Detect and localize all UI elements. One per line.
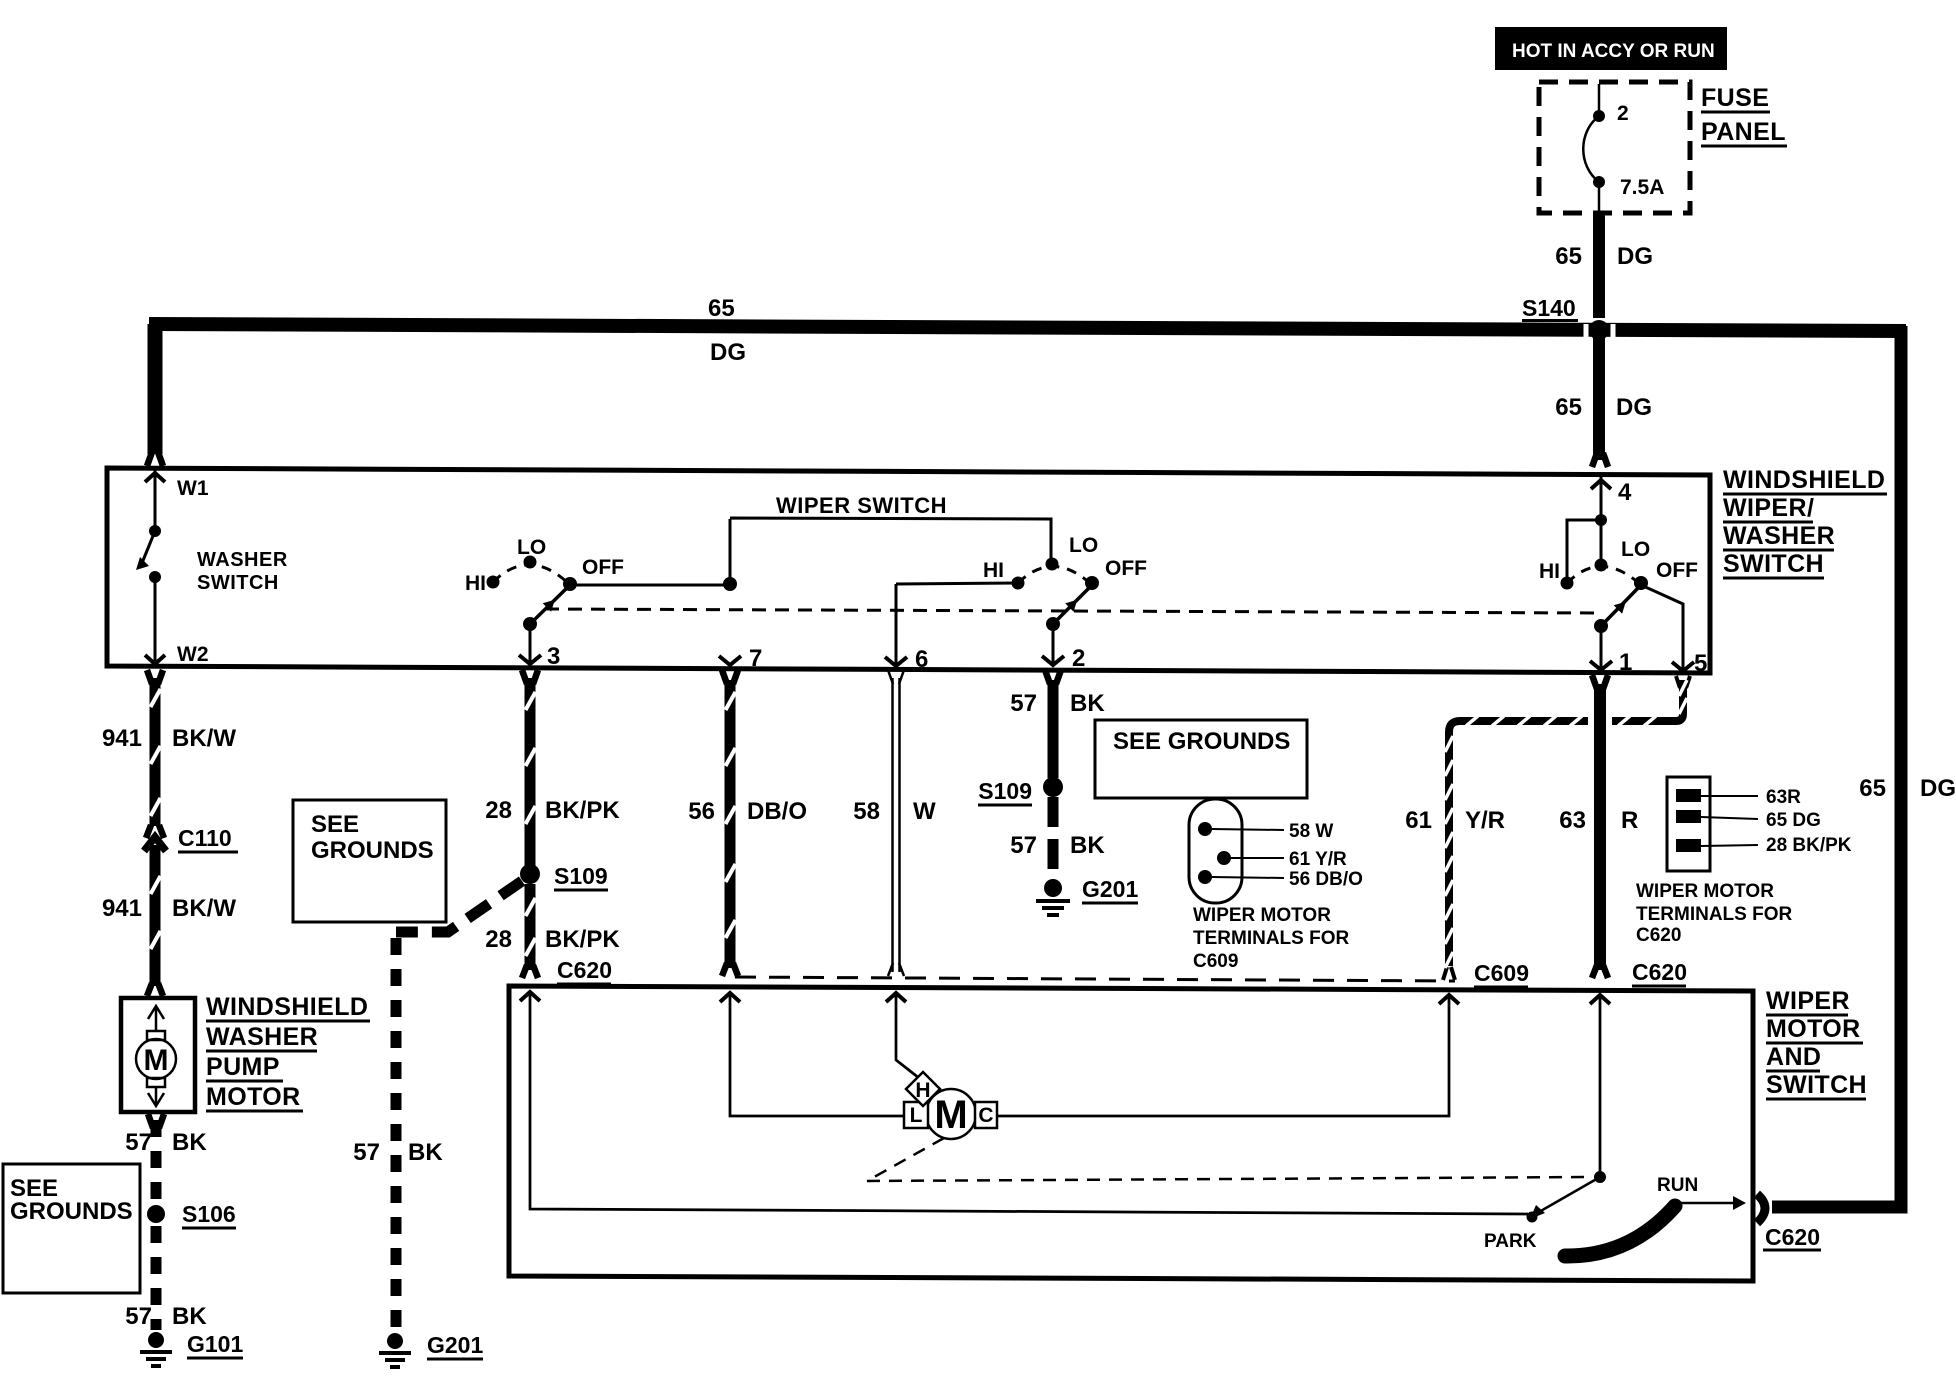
svg-text:C620: C620 — [1636, 925, 1681, 946]
svg-text:C609: C609 — [1193, 951, 1238, 972]
svg-text:63: 63 — [1559, 807, 1586, 834]
svg-text:OFF: OFF — [1105, 557, 1147, 580]
svg-text:BK: BK — [172, 1303, 207, 1330]
svg-text:MOTOR: MOTOR — [1766, 1015, 1861, 1043]
svg-text:WINDSHIELD: WINDSHIELD — [206, 993, 368, 1021]
svg-text:LO: LO — [1621, 538, 1650, 561]
svg-text:DB/O: DB/O — [747, 798, 807, 825]
svg-text:PANEL: PANEL — [1701, 118, 1786, 146]
svg-text:C620: C620 — [1765, 1224, 1820, 1250]
svg-text:5: 5 — [1694, 650, 1707, 677]
svg-text:57: 57 — [353, 1139, 380, 1166]
svg-text:57: 57 — [125, 1303, 152, 1330]
svg-text:WIPER MOTOR: WIPER MOTOR — [1636, 881, 1774, 902]
svg-text:RUN: RUN — [1657, 1175, 1698, 1196]
svg-text:S140: S140 — [1522, 295, 1576, 321]
svg-text:65: 65 — [1555, 394, 1582, 421]
svg-text:DG: DG — [1617, 243, 1653, 270]
svg-text:3: 3 — [547, 643, 560, 670]
svg-text:L: L — [910, 1104, 923, 1127]
svg-text:M: M — [144, 1044, 169, 1077]
svg-text:TERMINALS FOR: TERMINALS FOR — [1193, 928, 1349, 949]
svg-text:61 Y/R: 61 Y/R — [1289, 849, 1347, 870]
svg-text:SEE: SEE — [311, 811, 359, 838]
svg-text:7: 7 — [749, 645, 762, 672]
svg-text:S109: S109 — [554, 863, 608, 889]
svg-text:C110: C110 — [178, 825, 232, 851]
svg-text:W2: W2 — [177, 643, 209, 666]
svg-text:57: 57 — [1010, 690, 1037, 717]
svg-text:58: 58 — [853, 798, 880, 825]
svg-text:65: 65 — [1555, 243, 1582, 270]
svg-text:28: 28 — [485, 797, 512, 824]
svg-text:61: 61 — [1405, 807, 1432, 834]
svg-text:WIPER/: WIPER/ — [1723, 494, 1814, 522]
svg-text:DG: DG — [710, 339, 746, 366]
svg-text:G101: G101 — [187, 1331, 243, 1357]
svg-text:AND: AND — [1766, 1043, 1821, 1071]
svg-text:PARK: PARK — [1484, 1231, 1537, 1252]
svg-text:7.5A: 7.5A — [1620, 176, 1664, 199]
svg-text:M: M — [934, 1093, 967, 1137]
svg-text:65 DG: 65 DG — [1766, 810, 1821, 831]
svg-text:BK: BK — [1070, 832, 1105, 859]
svg-text:BK: BK — [1070, 690, 1105, 717]
svg-text:1: 1 — [1619, 649, 1632, 676]
svg-text:DG: DG — [1920, 775, 1956, 802]
svg-text:BK/PK: BK/PK — [545, 797, 620, 824]
svg-text:56: 56 — [688, 798, 715, 825]
svg-text:941: 941 — [102, 725, 142, 752]
svg-text:SEE GROUNDS: SEE GROUNDS — [1113, 728, 1290, 755]
svg-text:56 DB/O: 56 DB/O — [1289, 869, 1363, 890]
svg-text:SWITCH: SWITCH — [197, 572, 279, 594]
svg-text:OFF: OFF — [582, 556, 624, 579]
svg-text:2: 2 — [1617, 102, 1629, 125]
svg-text:FUSE: FUSE — [1701, 84, 1769, 112]
svg-text:4: 4 — [1618, 479, 1632, 506]
svg-text:C: C — [978, 1104, 993, 1127]
svg-text:28: 28 — [485, 926, 512, 953]
svg-text:GROUNDS: GROUNDS — [10, 1198, 133, 1225]
svg-text:57: 57 — [1010, 832, 1037, 859]
svg-text:BK: BK — [408, 1139, 443, 1166]
svg-text:H: H — [915, 1079, 930, 1102]
svg-text:S109: S109 — [978, 778, 1032, 804]
svg-text:28 BK/PK: 28 BK/PK — [1766, 835, 1852, 856]
svg-text:W: W — [913, 798, 936, 825]
svg-text:C620: C620 — [557, 957, 612, 983]
svg-text:Y/R: Y/R — [1465, 807, 1505, 834]
svg-text:58 W: 58 W — [1289, 821, 1333, 842]
svg-text:GROUNDS: GROUNDS — [311, 837, 434, 864]
svg-text:WASHER: WASHER — [197, 549, 288, 571]
svg-text:OFF: OFF — [1656, 559, 1698, 582]
svg-text:WASHER: WASHER — [1723, 522, 1835, 550]
svg-text:WASHER: WASHER — [206, 1023, 318, 1051]
svg-text:BK/PK: BK/PK — [545, 926, 620, 953]
svg-text:HI: HI — [983, 559, 1004, 582]
svg-text:S106: S106 — [182, 1201, 236, 1227]
svg-text:LO: LO — [1069, 534, 1098, 557]
svg-text:BK: BK — [172, 1129, 207, 1156]
svg-text:MOTOR: MOTOR — [206, 1083, 301, 1111]
svg-text:BK/W: BK/W — [172, 725, 236, 752]
svg-text:LO: LO — [517, 536, 546, 559]
svg-text:WIPER MOTOR: WIPER MOTOR — [1193, 905, 1331, 926]
svg-text:SWITCH: SWITCH — [1766, 1071, 1867, 1099]
svg-text:HOT IN ACCY OR RUN: HOT IN ACCY OR RUN — [1512, 41, 1715, 62]
svg-text:65: 65 — [708, 295, 735, 322]
svg-text:PUMP: PUMP — [206, 1053, 280, 1081]
svg-text:W1: W1 — [177, 477, 209, 500]
svg-text:R: R — [1621, 807, 1638, 834]
svg-text:G201: G201 — [1082, 876, 1138, 902]
svg-text:C609: C609 — [1474, 960, 1529, 986]
svg-text:HI: HI — [1539, 560, 1560, 583]
svg-text:G201: G201 — [427, 1332, 483, 1358]
svg-text:65: 65 — [1859, 775, 1886, 802]
svg-text:WIPER SWITCH: WIPER SWITCH — [776, 493, 947, 518]
svg-text:C620: C620 — [1632, 959, 1687, 985]
svg-text:BK/W: BK/W — [172, 895, 236, 922]
svg-text:WINDSHIELD: WINDSHIELD — [1723, 466, 1885, 494]
svg-text:SWITCH: SWITCH — [1723, 550, 1824, 578]
svg-text:2: 2 — [1072, 645, 1085, 672]
svg-text:WIPER: WIPER — [1766, 987, 1850, 1015]
svg-text:57: 57 — [125, 1129, 152, 1156]
svg-text:TERMINALS FOR: TERMINALS FOR — [1636, 904, 1792, 925]
svg-text:HI: HI — [465, 572, 486, 595]
svg-text:63R: 63R — [1766, 787, 1801, 808]
svg-text:941: 941 — [102, 895, 142, 922]
svg-text:6: 6 — [915, 646, 928, 673]
svg-text:DG: DG — [1616, 394, 1652, 421]
